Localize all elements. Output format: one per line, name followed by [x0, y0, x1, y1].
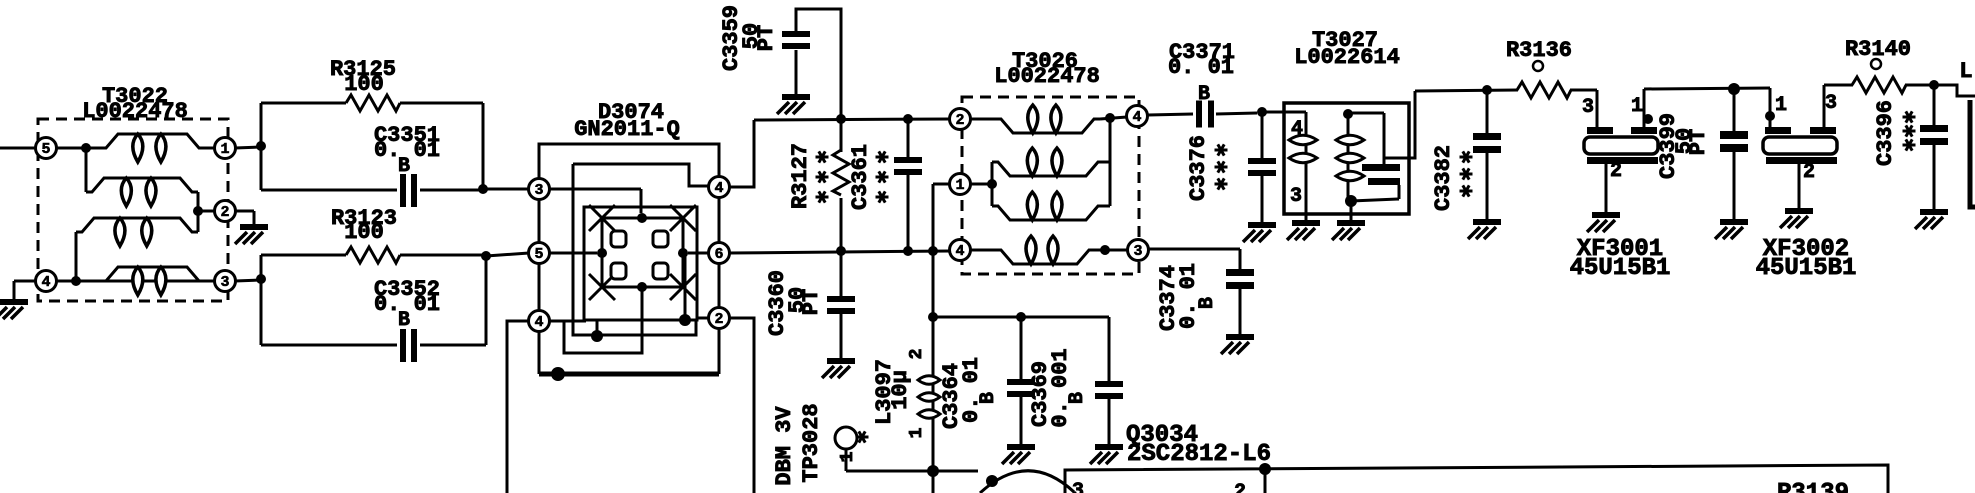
svg-text:B: B	[1066, 392, 1089, 404]
node C3371/T3027	[1257, 107, 1306, 117]
capacitor C3399	[1656, 89, 1748, 239]
resistor R3127	[788, 119, 849, 251]
svg-text:L: L	[1959, 59, 1972, 84]
capacitor C3376	[1186, 112, 1276, 242]
svg-text:4: 4	[1291, 118, 1303, 141]
oscillator circle (cut)	[980, 471, 1074, 493]
svg-text:2: 2	[714, 311, 723, 328]
svg-text:R3139: R3139	[1777, 480, 1849, 493]
svg-text:R3127: R3127	[788, 143, 813, 209]
wire RC block to D3074 pin 5	[486, 253, 529, 256]
wire bypass branch	[933, 312, 1109, 322]
node/bus mixer IF out	[729, 246, 950, 256]
svg-text:10µ: 10µ	[888, 370, 913, 410]
mixer D3074 GN2011-Q	[529, 100, 730, 381]
svg-text:B: B	[1196, 297, 1219, 309]
svg-text:2: 2	[1234, 481, 1246, 493]
svg-text:3: 3	[1290, 185, 1302, 208]
svg-text:0. 01: 0. 01	[959, 357, 984, 423]
svg-text:PT: PT	[799, 289, 824, 315]
svg-text:B: B	[398, 155, 410, 178]
wire bias vertical	[928, 184, 938, 368]
svg-text:B: B	[1198, 83, 1210, 106]
capacitor C3364	[939, 317, 1035, 464]
test point TP3028	[772, 403, 869, 485]
svg-text:3: 3	[1133, 243, 1142, 260]
svg-text:100: 100	[344, 72, 384, 97]
svg-text:GN2011-Q: GN2011-Q	[574, 117, 680, 142]
svg-text:0. 01: 0. 01	[1168, 55, 1234, 80]
wire RC block to D3074 pin 3	[483, 188, 529, 191]
svg-text:5: 5	[41, 141, 50, 158]
wire T3022 pin1 to RC block	[235, 147, 261, 148]
capacitor C3359	[719, 5, 841, 119]
svg-text:2: 2	[220, 204, 229, 221]
capacitor C3371	[1148, 40, 1257, 128]
node/bus RF out top	[754, 114, 950, 124]
wire to next stage (cut at edge)	[1934, 59, 1975, 207]
svg-text:4: 4	[714, 180, 723, 197]
svg-text:B: B	[977, 392, 1000, 404]
svg-text:45U15B1: 45U15B1	[1570, 255, 1671, 282]
svg-text:3: 3	[1072, 480, 1084, 493]
svg-text:1: 1	[955, 177, 964, 194]
wire input to T3022 pin 5	[0, 147, 100, 150]
svg-text:1: 1	[220, 141, 229, 158]
svg-text:4: 4	[534, 314, 543, 331]
svg-text:4: 4	[955, 243, 964, 260]
svg-text:PT: PT	[754, 25, 779, 51]
crystal filter XF3001 45U15B1	[1570, 89, 1671, 282]
inductor L3097	[872, 349, 940, 493]
capacitor C3382	[1431, 90, 1501, 239]
resistor R3136	[1506, 38, 1597, 98]
ground at T3022 pin 4	[0, 281, 28, 319]
svg-text:C3376: C3376	[1186, 135, 1211, 201]
wire T3026 mid pin to bias	[933, 183, 949, 186]
wire D3074 pin4(top right) to RF node	[729, 120, 754, 187]
node between crystal filters	[1644, 83, 1770, 95]
capacitor C3369	[1028, 317, 1123, 464]
transistor Q3034 2SC2812-L6 (labels, circuit cut)	[1126, 422, 1271, 468]
transformer T3027 L0022614	[1284, 28, 1415, 240]
transformer T3026 L0022478	[950, 49, 1149, 274]
svg-text:2SC2812-L6: 2SC2812-L6	[1127, 441, 1271, 468]
svg-text:L0022614: L0022614	[1294, 45, 1400, 70]
svg-text:2: 2	[1610, 160, 1622, 183]
ground at T3022 pin 2	[235, 211, 268, 244]
svg-text:5: 5	[534, 246, 543, 263]
svg-text:1: 1	[907, 427, 927, 438]
svg-text:L0022478: L0022478	[994, 64, 1100, 89]
capacitor C3352	[261, 251, 491, 362]
svg-text:3: 3	[1582, 96, 1594, 119]
svg-text:2: 2	[1803, 161, 1815, 184]
wire TP to oscillator	[846, 465, 978, 477]
svg-text:100: 100	[344, 220, 384, 245]
svg-text:4: 4	[41, 274, 50, 291]
resistor R3140	[1824, 37, 1934, 93]
wire T3022 pin3 to RC block	[235, 280, 261, 281]
crystal filter XF3002 45U15B1	[1756, 85, 1857, 282]
svg-text:2: 2	[907, 349, 927, 360]
capacitor C3396	[1873, 80, 1948, 229]
wire D3074 pin4 down-left	[507, 321, 529, 493]
resistor R3123	[256, 206, 486, 345]
capacitor C3351	[261, 103, 488, 207]
svg-text:1: 1	[838, 451, 858, 462]
svg-text:PT: PT	[1686, 129, 1711, 155]
svg-text:C3361: C3361	[848, 144, 873, 210]
svg-text:1: 1	[1775, 94, 1787, 117]
svg-text:45U15B1: 45U15B1	[1756, 255, 1857, 282]
wire D3074 pin2 down-right	[729, 318, 754, 493]
svg-text:3: 3	[534, 182, 543, 199]
svg-text:3: 3	[1825, 92, 1837, 115]
svg-text:3: 3	[220, 274, 229, 291]
svg-text:B: B	[398, 309, 410, 332]
resistor R3125	[256, 57, 483, 190]
capacitor C3374	[1149, 249, 1254, 354]
svg-text:TP3028: TP3028	[799, 403, 824, 482]
svg-text:4: 4	[1132, 109, 1141, 126]
svg-text:DBM 3V: DBM 3V	[772, 406, 797, 486]
svg-text:0. 001: 0. 001	[1048, 348, 1073, 427]
transformer T3022 L0022478	[14, 84, 236, 301]
svg-text:0. 01: 0. 01	[1176, 263, 1201, 329]
wire T3027 to R3136	[1415, 85, 1518, 95]
svg-text:C3382: C3382	[1431, 145, 1456, 211]
capacitor C3360	[765, 251, 855, 378]
svg-text:1: 1	[1631, 95, 1643, 118]
svg-text:L0022478: L0022478	[82, 99, 188, 124]
svg-text:2: 2	[955, 112, 964, 129]
resistor R3139 box (cut at bottom)	[1065, 463, 1888, 493]
svg-text:6: 6	[714, 246, 723, 263]
capacitor C3361	[848, 119, 922, 251]
svg-text:C3396: C3396	[1873, 100, 1898, 166]
svg-text:R3136: R3136	[1506, 38, 1572, 63]
